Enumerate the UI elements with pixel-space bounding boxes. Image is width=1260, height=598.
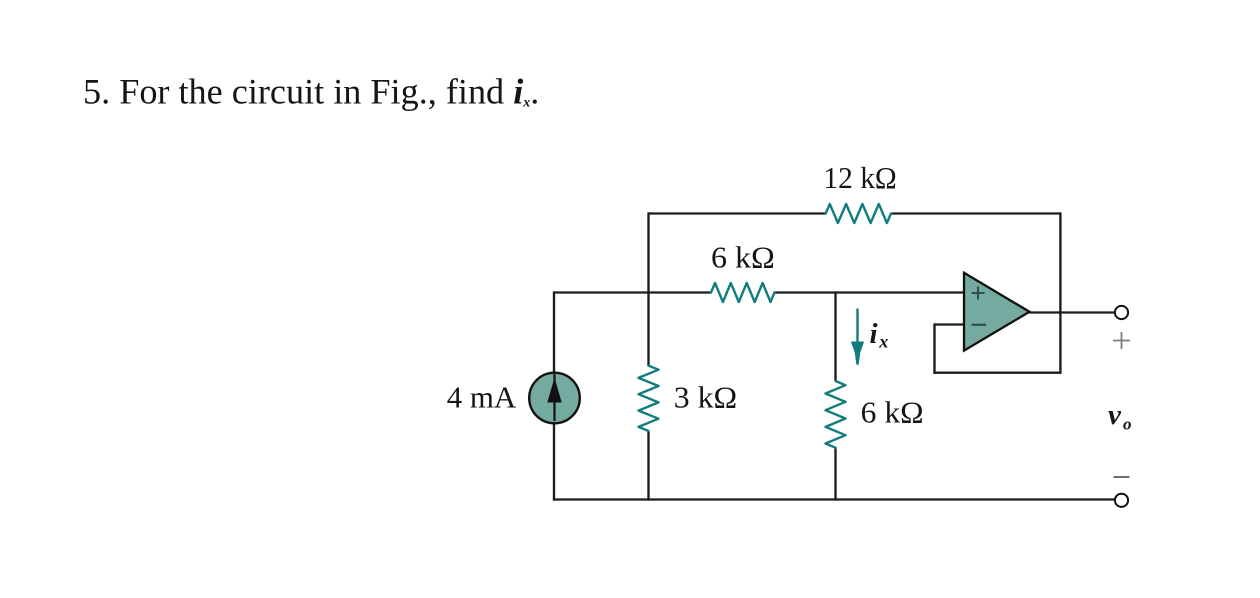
svg-text:4 mA: 4 mA: [447, 379, 517, 414]
svg-text:6 kΩ: 6 kΩ: [711, 240, 775, 275]
svg-text:i: i: [870, 318, 878, 350]
svg-text:6 kΩ: 6 kΩ: [861, 395, 924, 430]
svg-text:x: x: [878, 332, 888, 352]
svg-text:12 kΩ: 12 kΩ: [823, 160, 896, 195]
svg-text:v: v: [1108, 399, 1122, 431]
svg-text:o: o: [1123, 415, 1132, 434]
svg-text:5. For the circuit in Fig., fi: 5. For the circuit in Fig., find ix.: [83, 72, 539, 112]
svg-text:3 kΩ: 3 kΩ: [674, 379, 737, 414]
